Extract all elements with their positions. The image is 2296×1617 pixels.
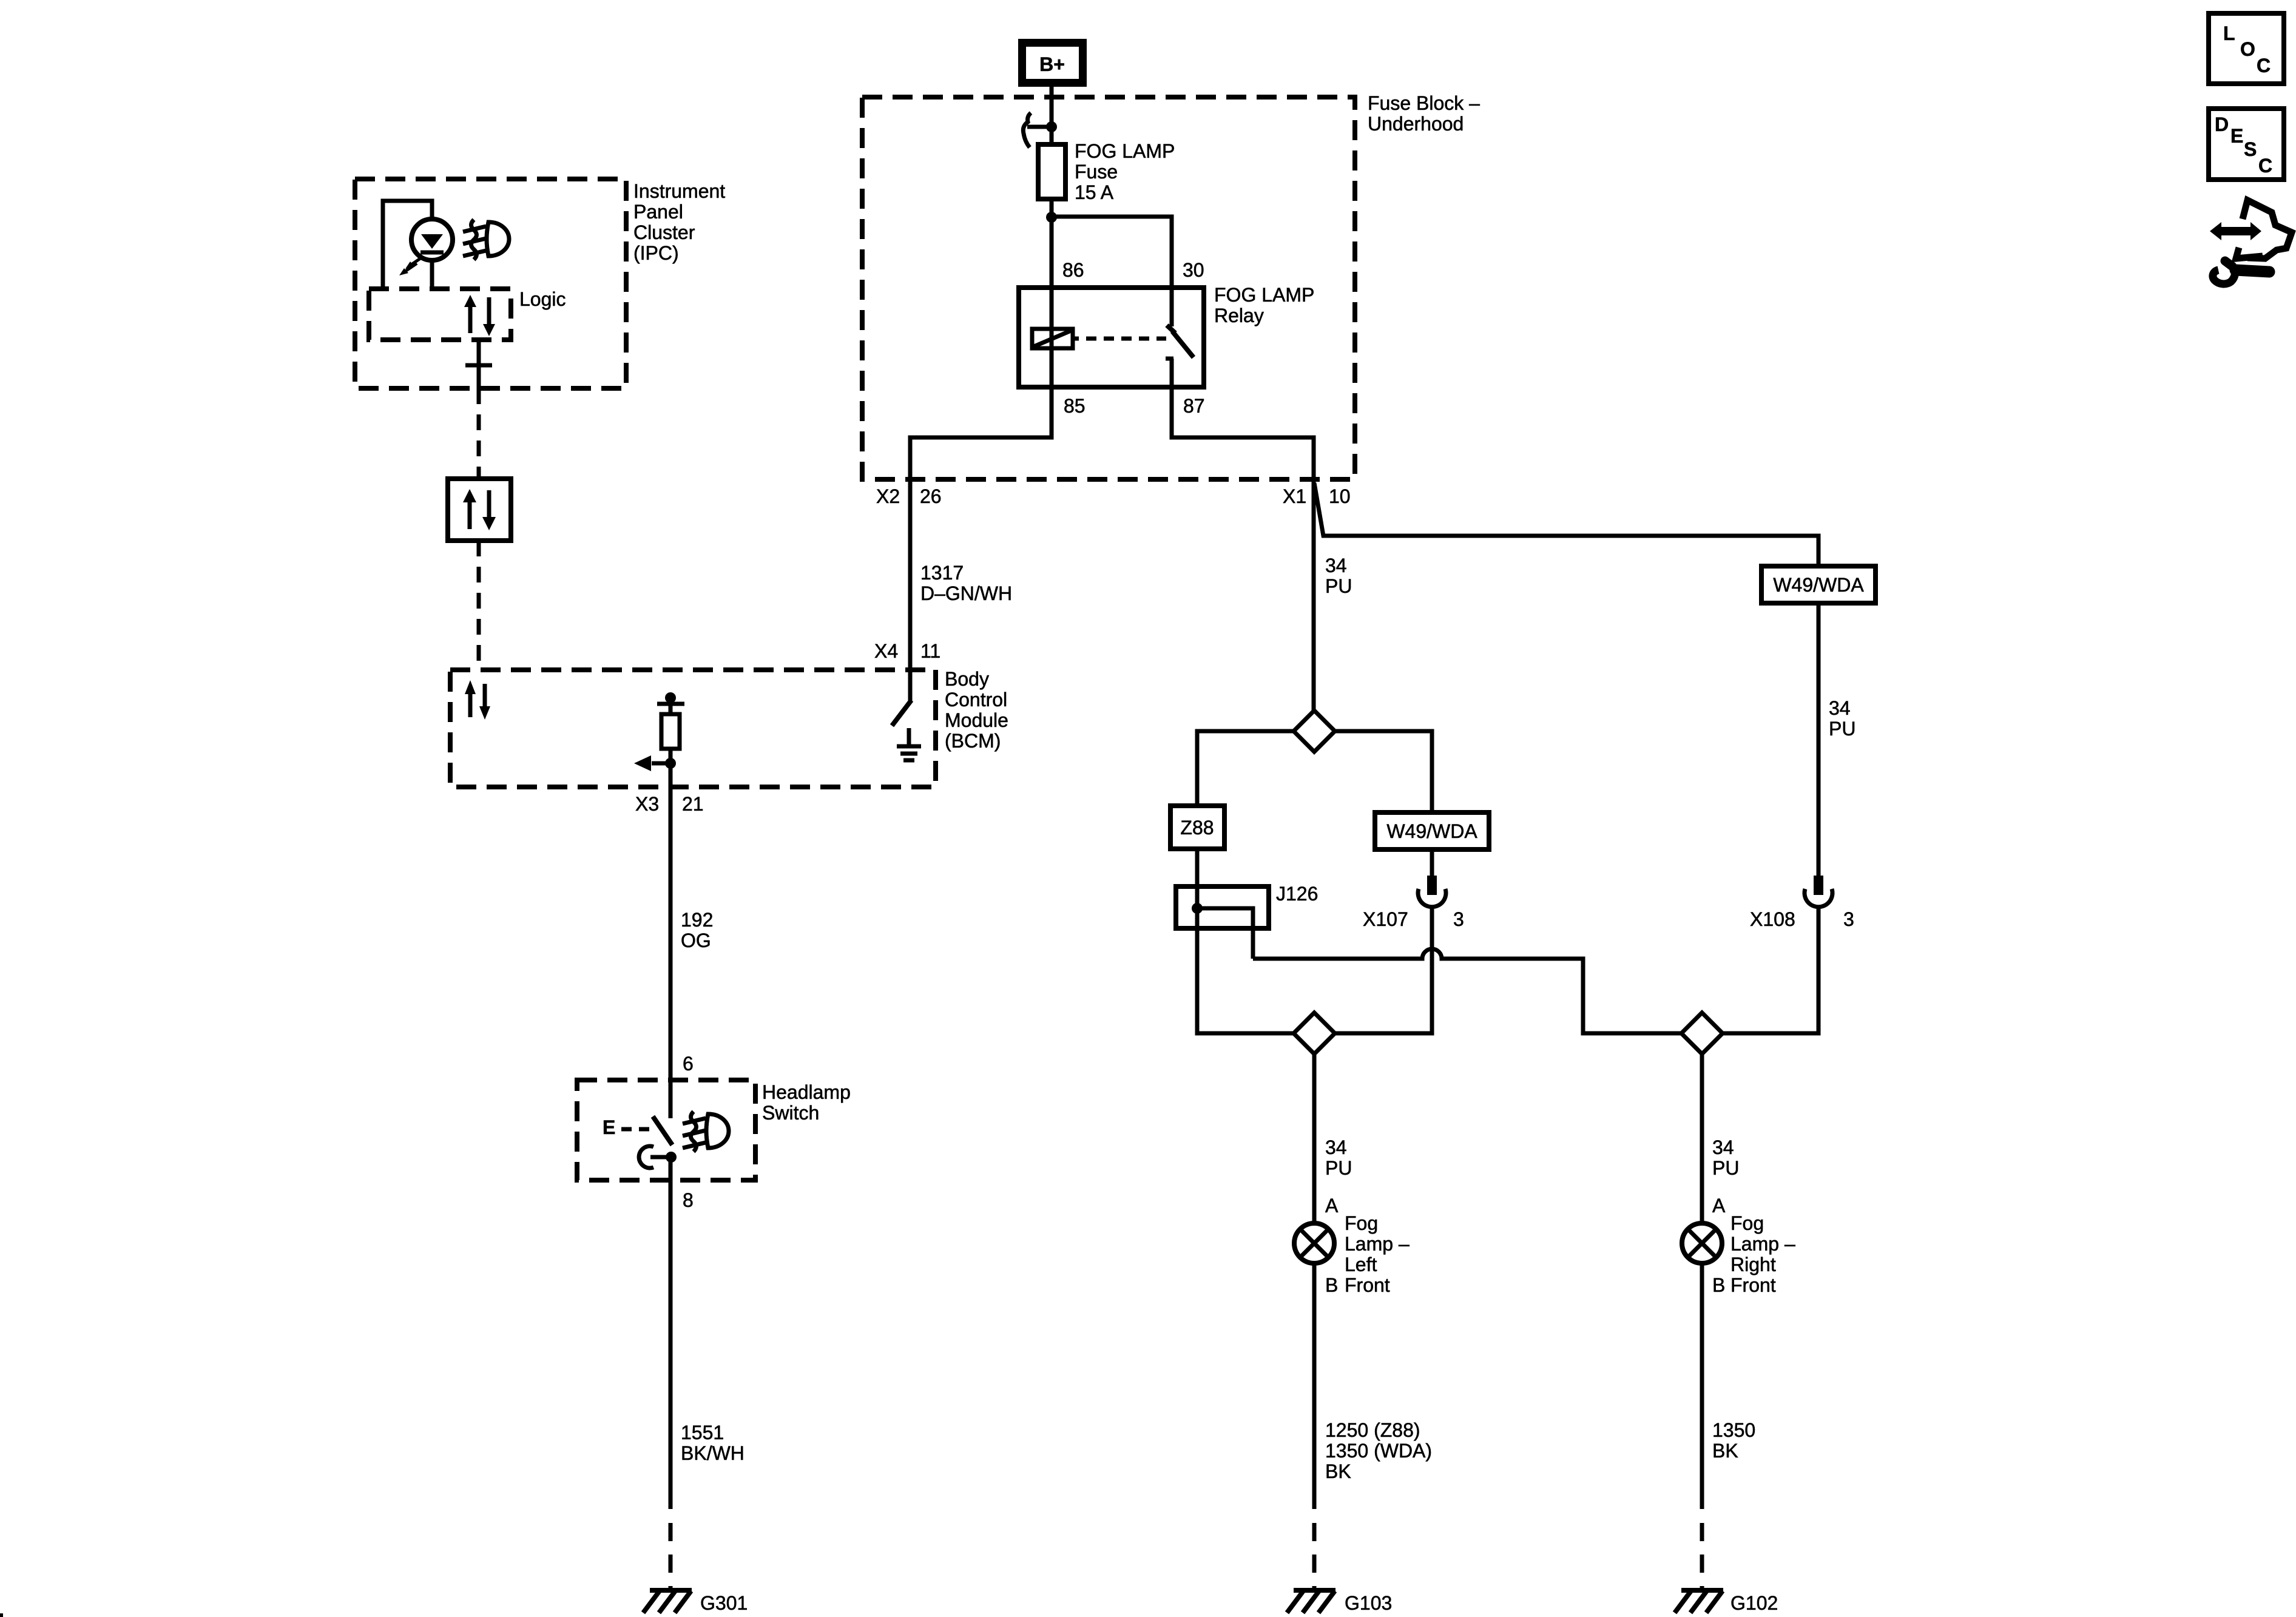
wire logic to IPC edge with tick (477, 340, 481, 388)
wire branch to relay pin 30 (1052, 217, 1172, 326)
svg-text:X4: X4 (874, 640, 898, 662)
wire Z88 through J126 to splice S2 (1197, 849, 1294, 1033)
svg-text:A: A (1325, 1195, 1339, 1217)
svg-text:E: E (603, 1116, 615, 1138)
relay switch contacts (1166, 325, 1194, 359)
connector X108 pin and socket (1814, 876, 1823, 895)
fog lamp left front E1 (1294, 1223, 1334, 1263)
svg-text:W49/WDA: W49/WDA (1386, 820, 1477, 842)
fuse F1 FOG LAMP 15 A (1038, 144, 1065, 199)
logic box (369, 289, 511, 340)
wire X1 down to splice S1 (1312, 480, 1316, 711)
logic up/down arrows (464, 295, 495, 336)
svg-text:86: 86 (1062, 259, 1084, 281)
fog lamp icon in switch (683, 1112, 729, 1152)
svg-text:O: O (2240, 38, 2255, 60)
svg-text:8: 8 (683, 1189, 694, 1211)
wire LED feed loop (383, 201, 432, 289)
scan speck bottom left (0, 1613, 3, 1617)
wire relay 85 through X2-26 to BCM X4-11 (910, 217, 1052, 701)
splice dot below fuse (1046, 212, 1057, 223)
fog lamp indicator icon (463, 220, 509, 260)
wire BCM to headlamp switch (669, 763, 673, 1118)
svg-text:30: 30 (1183, 259, 1204, 281)
svg-text:B: B (1712, 1274, 1725, 1296)
wrench icon (2213, 261, 2269, 284)
BCM signal direction arrow (652, 761, 670, 766)
dashed wire interface to BCM (477, 541, 481, 670)
junction block J126 (1176, 886, 1269, 959)
svg-text:Logic: Logic (519, 288, 566, 310)
battery feed B+ terminal (1018, 39, 1087, 87)
svg-text:21: 21 (682, 793, 704, 815)
splice diamond S2 (1294, 1013, 1335, 1054)
svg-text:A: A (1712, 1195, 1726, 1217)
svg-text:L: L (2223, 22, 2235, 44)
wire X107 to splice S2 (1335, 909, 1432, 1033)
svg-text:X108: X108 (1750, 908, 1795, 930)
fog lamp right front E2 (1682, 1223, 1722, 1263)
splice diamond S3 (1681, 1013, 1723, 1054)
connector X107 pin and socket (1427, 876, 1437, 895)
BCM internal ground (897, 728, 921, 760)
interface up/down arrows (463, 489, 496, 530)
headlamp switch blade (653, 1116, 672, 1145)
wire branch X1 to right column (1314, 483, 1818, 566)
svg-text:X107: X107 (1363, 908, 1408, 930)
svg-text:Fuse Block –Underhood: Fuse Block –Underhood (1368, 92, 1480, 135)
relay coil-switch dashed link (1086, 337, 1166, 341)
terminal junction dot (1046, 121, 1057, 132)
wire relay 87 to connector X1 (1172, 359, 1314, 482)
wire S1 to W49/WDA left (1335, 731, 1432, 812)
BCM output junction dot (665, 758, 676, 769)
svg-text:C: C (2258, 155, 2272, 177)
ground G103 (1287, 1590, 1335, 1613)
adjustment hand icon with arrow (2210, 200, 2292, 258)
BCM logic up/down arrows (465, 680, 490, 720)
svg-text:G301: G301 (700, 1592, 748, 1614)
wire X108 to splice S3 (1723, 909, 1818, 1033)
option box W49/WDA left (1375, 812, 1489, 849)
wire right lamp to ground G102 (1700, 1263, 1704, 1509)
fuse block underhood box (862, 97, 1355, 479)
wire S2 to left fog lamp (1312, 1054, 1317, 1223)
wire J126 branch to splice S3 with hop (1253, 949, 1681, 1033)
wire resistor to junction (669, 749, 673, 763)
svg-text:E: E (2230, 125, 2243, 147)
BCM pull-up dot bar resistor R1 (657, 692, 684, 749)
option box W49/WDA right (1761, 566, 1876, 603)
DESC reference box (2209, 109, 2284, 180)
svg-text:J126: J126 (1276, 883, 1318, 905)
wire switch to ground G301 (669, 1157, 673, 1509)
svg-text:3: 3 (1843, 908, 1854, 930)
svg-text:85: 85 (1064, 395, 1086, 417)
LED light emission arrows (399, 257, 423, 275)
battery feed terminal hook (1023, 113, 1031, 147)
svg-text:3: 3 (1453, 908, 1464, 930)
splice diamond S1 (1294, 711, 1335, 752)
svg-text:192OG: 192OG (681, 909, 713, 951)
svg-text:6: 6 (683, 1053, 694, 1075)
fog lamp relay box K1 (1019, 288, 1204, 387)
instrument panel cluster box (355, 179, 626, 388)
svg-text:B: B (1325, 1274, 1338, 1296)
indicator LED D1 (411, 219, 453, 289)
BCM input switch blade (892, 700, 911, 726)
body control module box (450, 670, 936, 787)
svg-text:26: 26 (920, 485, 942, 507)
dashed wire IPC to interface box (477, 388, 481, 479)
LOC reference box (2209, 13, 2284, 84)
svg-text:10: 10 (1329, 485, 1351, 507)
svg-text:X1: X1 (1283, 485, 1306, 507)
serial data interface box (448, 479, 511, 541)
svg-text:B+: B+ (1039, 53, 1065, 75)
svg-text:Z88: Z88 (1180, 817, 1214, 839)
wire W49/WDA right to connector X108 (1817, 603, 1821, 878)
svg-text:G103: G103 (1345, 1592, 1392, 1614)
wire S1 to Z88 (1197, 731, 1294, 806)
svg-text:D: D (2215, 113, 2229, 135)
ground G301 (643, 1590, 692, 1613)
switch wiper hook contact (639, 1146, 653, 1168)
option box Z88 (1170, 806, 1224, 849)
wire left lamp to ground G103 (1312, 1263, 1317, 1509)
svg-text:W49/WDA: W49/WDA (1773, 574, 1864, 596)
wire fuse to splice dot (1050, 199, 1054, 217)
svg-text:C: C (2257, 55, 2271, 76)
wire B+ into fuse block (1050, 87, 1054, 144)
svg-text:S: S (2244, 138, 2257, 160)
headlamp switch box (577, 1080, 755, 1180)
switch contact dot (666, 1152, 677, 1163)
svg-text:X3: X3 (635, 793, 659, 815)
svg-text:87: 87 (1183, 395, 1205, 417)
svg-text:X2: X2 (876, 485, 900, 507)
ground G102 (1675, 1590, 1723, 1613)
wire W49/WDA to connector X107 (1430, 849, 1434, 878)
wire S3 to right fog lamp (1700, 1054, 1704, 1223)
svg-text:G102: G102 (1730, 1592, 1778, 1614)
relay coil (1032, 329, 1079, 348)
svg-text:11: 11 (920, 640, 940, 662)
